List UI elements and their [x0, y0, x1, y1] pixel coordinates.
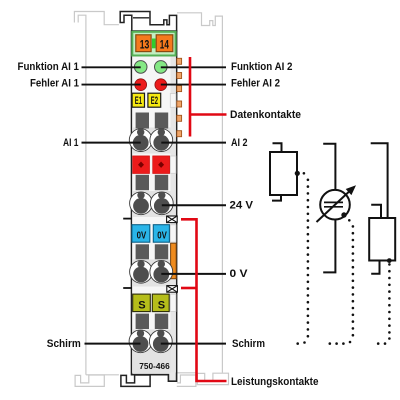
green centre square	[152, 39, 156, 49]
power jumper contact blade symbol (right, 24V)	[167, 216, 178, 223]
junction node on adjustable transducer	[341, 212, 346, 217]
LED Fehler AI2 (red)	[155, 79, 167, 91]
terminal number 14	[156, 35, 173, 52]
svg-text:0V: 0V	[157, 231, 167, 242]
marker E1	[132, 93, 144, 107]
LED Funktion AI2 (green)	[155, 61, 168, 74]
svg-text:Funktion AI 2: Funktion AI 2	[231, 61, 293, 73]
svg-text:24 V: 24 V	[230, 200, 254, 212]
label line Funktion AI 1	[82, 66, 141, 68]
terminal marker 0V right	[153, 225, 169, 243]
terminal number 13	[136, 35, 151, 52]
label line AI 2	[161, 142, 226, 144]
clamp 24V right	[150, 192, 173, 215]
wiring aperture row1 left	[136, 113, 149, 129]
svg-text:13: 13	[140, 37, 150, 51]
clamp 0V right	[150, 260, 173, 283]
clamp 0V left	[130, 260, 153, 283]
label line Fehler AI 1	[82, 84, 141, 86]
shield terminal marker S left	[133, 294, 151, 312]
red bracket Datenkontakte	[190, 57, 227, 137]
data contact tabs (right edge)	[177, 58, 182, 136]
wiring aperture row3 right	[155, 244, 168, 259]
svg-text:AI 2: AI 2	[231, 137, 248, 149]
label line 24 V	[162, 204, 226, 206]
svg-text:0V: 0V	[137, 231, 147, 242]
sensor symbol 2	[369, 143, 395, 274]
wiring aperture row4 left	[136, 314, 149, 329]
svg-text:750-466: 750-466	[139, 361, 170, 371]
label line Schirm right	[161, 343, 226, 345]
svg-text:E2: E2	[151, 95, 158, 107]
shield dotted line A	[296, 172, 309, 345]
terminal marker 0V left	[132, 225, 150, 243]
wiring aperture row1 right	[155, 113, 168, 129]
wiring aperture row3 left	[136, 244, 149, 259]
svg-text:AI 1: AI 1	[63, 137, 79, 149]
label line Schirm left	[85, 343, 141, 345]
label line Fehler AI 2	[161, 84, 226, 86]
LED Funktion AI1 (green)	[134, 61, 147, 74]
clamp area bands	[132, 128, 170, 374]
svg-text:Leistungskontakte: Leistungskontakte	[231, 376, 319, 388]
right neighbour module silhouette	[177, 13, 229, 387]
svg-text:E1: E1	[135, 95, 142, 107]
clamp Schirm right	[149, 330, 172, 353]
left neighbour module silhouette	[74, 12, 119, 387]
svg-text:Schirm: Schirm	[47, 338, 81, 350]
shield terminal marker S right	[152, 294, 169, 312]
clamp Schirm left	[129, 330, 152, 353]
svg-text:Funktion AI 1: Funktion AI 1	[18, 61, 80, 73]
power jumper contact female stub (left, 0V)	[123, 287, 132, 289]
LED Fehler AI1 (red)	[135, 79, 147, 91]
svg-text:14: 14	[160, 37, 169, 51]
module 750-466 top cap with latch	[120, 12, 176, 32]
right column strip	[171, 57, 176, 373]
supply module terminal + left	[133, 156, 150, 174]
clamp AI1	[129, 129, 152, 152]
junction node on sensor 2	[387, 258, 392, 263]
module body	[132, 31, 177, 381]
wiring aperture row4 right	[155, 314, 168, 329]
plus marks	[138, 162, 144, 168]
supply module terminal + right	[153, 156, 170, 174]
module foot	[121, 375, 150, 386]
svg-text:Fehler AI 1: Fehler AI 1	[30, 77, 79, 89]
power jumper contact female stub (left, 24V)	[123, 218, 132, 220]
top cap inner contour	[133, 17, 149, 19]
wiring aperture row2 left	[136, 175, 149, 190]
red bracket Leistungskontakte	[181, 219, 227, 381]
clamp 24V left	[130, 192, 153, 215]
sensor symbol 1 (2-wire transducer)	[270, 143, 297, 200]
clamp AI2	[150, 129, 173, 152]
label line Funktion AI 2	[161, 66, 226, 68]
svg-text:Datenkontakte: Datenkontakte	[230, 109, 301, 121]
svg-text:S: S	[158, 300, 165, 312]
label line 0 V	[161, 273, 226, 275]
shield dotted line C	[377, 263, 391, 345]
shield dotted line B	[329, 219, 355, 345]
marker E2	[148, 93, 161, 107]
terminal number field (green)	[132, 32, 175, 56]
face panel	[132, 57, 170, 373]
junction node on sensor 1	[295, 171, 300, 176]
svg-text:Fehler AI 2: Fehler AI 2	[231, 77, 280, 89]
adjustable transducer symbol (circle with arrow)	[317, 144, 352, 273]
label line AI 1	[82, 142, 141, 144]
power jumper contact blade symbol (right, 0V)	[167, 286, 178, 293]
svg-text:Schirm: Schirm	[232, 338, 265, 350]
arrowhead	[346, 185, 356, 195]
svg-text:0 V: 0 V	[230, 268, 248, 280]
power jumper contact bar (orange, right column)	[171, 243, 177, 279]
svg-text:S: S	[138, 300, 145, 312]
wiring aperture row2 right	[155, 175, 168, 190]
